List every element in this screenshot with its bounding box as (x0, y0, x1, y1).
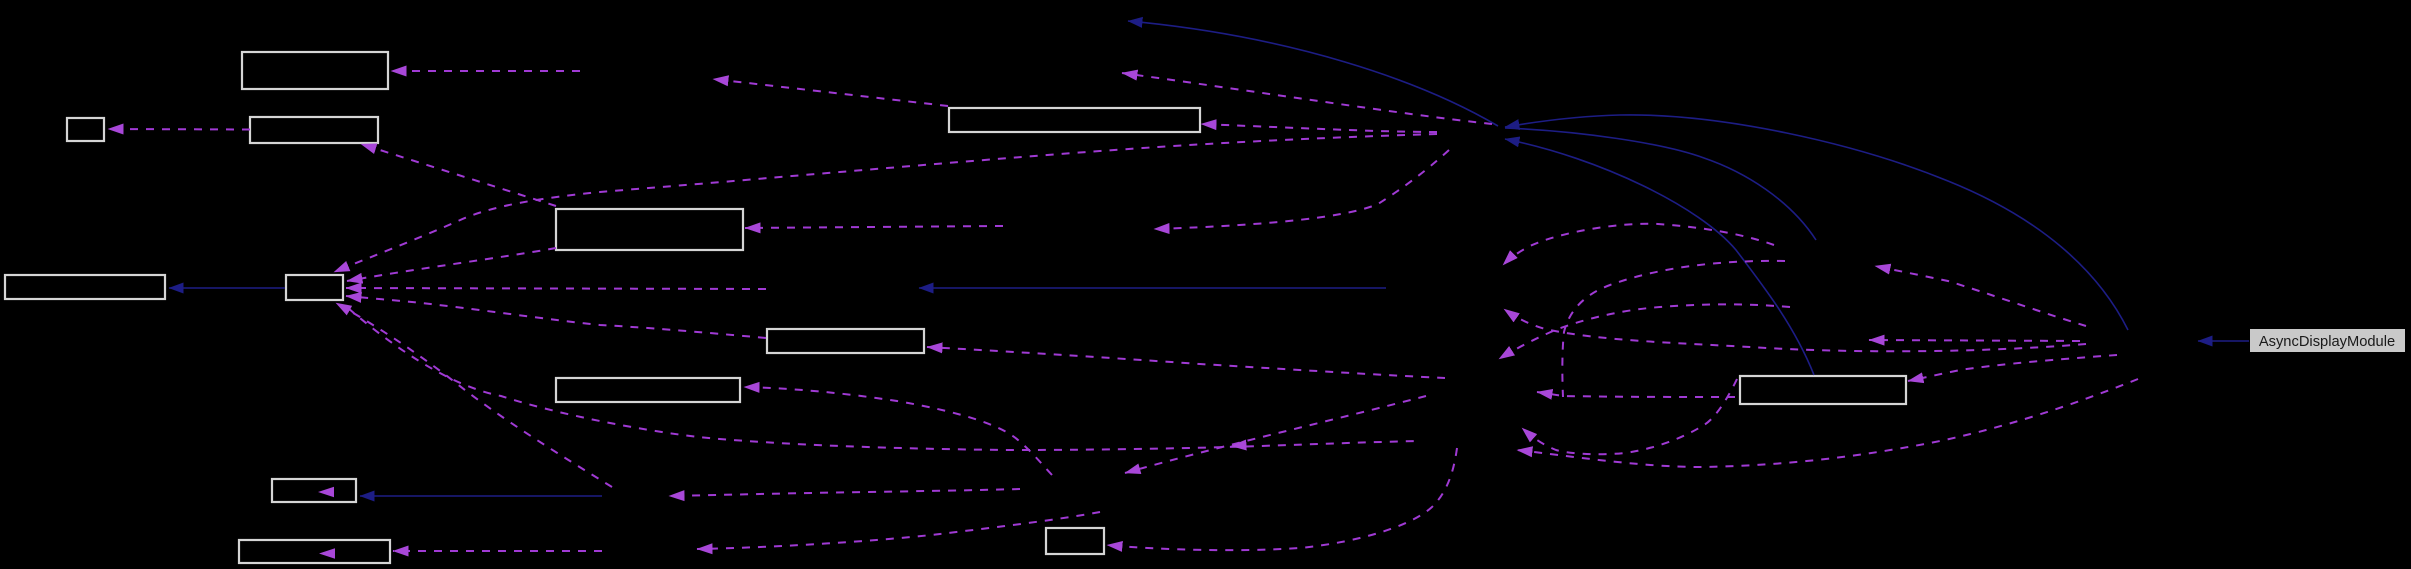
long low dashed curve from B6 corner to right (no end arrow) (348, 308, 1420, 450)
dashed diagonal from N8 label to NL1 arrowhead (1125, 396, 1426, 473)
dashed edge from right hub into B13 right edge (1908, 355, 2117, 381)
dashed edge A from N1 to top arrowhead (1122, 73, 1492, 124)
long dashed edge C from N1 sweeping to B6 top corner (334, 134, 1437, 272)
node box B4 (two-line) (556, 209, 743, 250)
svg-text:AsyncDisplayModule: AsyncDisplayModule (2259, 334, 2395, 350)
dashed edge from B7 left into B6 right (346, 296, 766, 338)
long blue inheritance arrow mid-left (919, 287, 1386, 289)
small interior arrowhead inside B9 (318, 487, 334, 497)
node box B8 (556, 378, 740, 402)
node box B11 (wide top) (949, 108, 1200, 132)
long dashed curveA from right hub to arrowhead A5 (1517, 379, 2138, 467)
dashed edge E_Pu1 to arrowhead near N7 (1503, 224, 1774, 265)
dashed edge E_A2 to cluster arrowhead A2 (1499, 304, 1790, 359)
blue curve middle (ends mid-air at invisible label) (1505, 128, 1816, 240)
blue curve from B13 top to N1 lower arrowhead (1505, 139, 1814, 375)
node box B10 (239, 540, 390, 563)
dashed arrow B3 to B2 (108, 128, 250, 131)
embedded arrowhead on long curve (1231, 445, 1246, 446)
dashed horizontal with arrowhead A3 (1537, 392, 1735, 397)
dashed diagonal from invisible node up into B6 bottom corner (336, 303, 612, 487)
dashed arrow from B4 top corner into B3 bottom (361, 144, 556, 206)
dashed edge from B13 corner dipping to arrowhead A4 (1522, 379, 1737, 454)
dashed horizontal into B6 right (y288) (346, 288, 766, 289)
blue inheritance arrow from AsyncDisplayModule (2198, 340, 2249, 342)
node box B2 (small left) (67, 118, 104, 141)
node box B5 (left edge) (5, 275, 165, 299)
dashed curve into B8 right edge (744, 387, 1052, 475)
dashed arrow into B1 (391, 70, 580, 72)
dashed arrow into B4 right edge (745, 226, 1003, 228)
big blue arc from right hub down to N1 upper arrowhead (1505, 115, 2128, 330)
dashed arrow into B10 (393, 550, 602, 552)
dashed arc E_A1 from right hub to cluster arrowhead A1 (1504, 309, 2086, 351)
dashed edge D from N1 curving to mid arrowhead (1154, 150, 1449, 229)
node box B12 (small bottom) (1046, 528, 1104, 554)
blue inheritance arrow into B5 from B6 (169, 287, 285, 289)
node box B13 (right) (1740, 376, 1906, 404)
dashed curve K1 to bottom-center arrowhead (697, 512, 1100, 549)
dashed horizontal from right hub to arrowhead (y340) (1869, 340, 2080, 341)
dashed edge from N1 into B11 right (1201, 124, 1437, 132)
blue inheritance arrow into B9 (360, 495, 602, 497)
dashed edge from B4 bottom corner into B6 upper right (347, 248, 556, 281)
dashed arrow into B7 right edge (927, 347, 1445, 378)
dashed segment from B11 corner to invisible label (arrow) (713, 79, 948, 106)
dashed arrow toward invisible node left of B9 chain (669, 489, 1020, 496)
blue curve from node N1 to top-left arrowhead (1128, 21, 1498, 126)
small interior arrowhead inside B10 (319, 548, 335, 558)
dashed S-curve E_V through cluster (1562, 261, 1785, 397)
node box B6 (hub) (286, 275, 343, 300)
dashed edge from right hub to arrowhead A6 (1875, 266, 2086, 326)
node box B7 (767, 329, 924, 353)
dashed curve into B12 (1107, 448, 1457, 550)
node box B1 (top-left two-line class) (242, 52, 388, 89)
node box B3 (250, 117, 378, 143)
node AsyncDisplayModule (current node, grey fill) (2250, 329, 2405, 352)
node box B9 (272, 479, 356, 502)
